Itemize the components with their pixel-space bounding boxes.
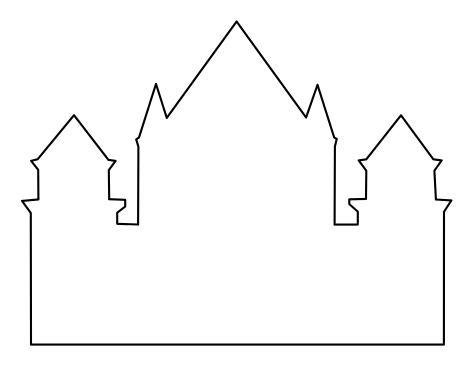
castle right wall with base skirt and bottom wall <box>31 200 451 345</box>
castle left wall with base skirt <box>22 199 38 344</box>
central spire with flanking spikes <box>136 22 337 225</box>
right turret notch <box>335 199 366 225</box>
right tower with pointed roof and eaves <box>359 115 442 199</box>
left turret notch <box>109 199 138 224</box>
left tower with pointed roof and eaves <box>31 115 116 199</box>
